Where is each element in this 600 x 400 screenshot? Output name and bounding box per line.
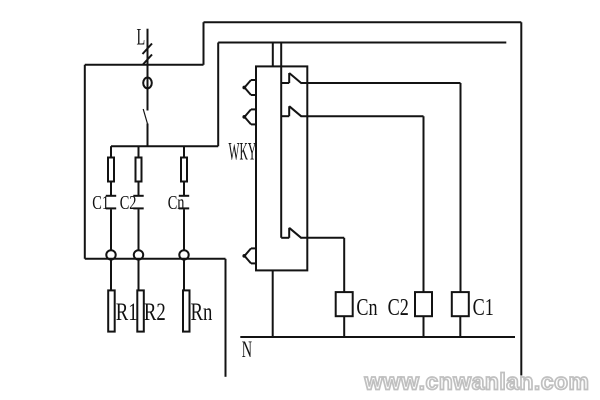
wire capacitor branch bus horizontal [111, 145, 218, 147]
wire top entry left pin [272, 43, 274, 67]
svg-text:L: L [137, 25, 146, 50]
svg-text:Cn: Cn [168, 191, 185, 214]
slash mark 1 on L line [143, 44, 153, 55]
coil Cn [336, 292, 353, 316]
svg-text:C2: C2 [120, 191, 137, 214]
wire horizontal junction at L (node A) [85, 64, 204, 66]
svg-text:C1: C1 [92, 191, 109, 214]
wire contact K2 output to C2 coil [302, 115, 424, 117]
terminal circle branch n [179, 250, 188, 259]
wire branch 1 top [110, 146, 112, 157]
wire branch n mid [183, 182, 185, 196]
wire top entry right pin / internal bus [280, 43, 282, 238]
wire branch 1 mid [110, 182, 112, 196]
wire branch n to resistor [183, 260, 185, 291]
fuse FU2 [136, 158, 142, 182]
wire coil C2 to N [423, 316, 425, 337]
coil C2 [415, 292, 432, 316]
probe sensor 2 (left of WKY) [242, 109, 256, 124]
terminal circle branch 1 [106, 250, 115, 259]
wire second bus horizontal [218, 42, 506, 44]
wire contact Kn output to Cn coil [302, 237, 345, 239]
svg-text:Cn: Cn [356, 294, 377, 321]
resistor Rn [183, 290, 190, 331]
probe sensor 1 (left of WKY) [242, 80, 256, 95]
contact Kn inside WKY [281, 237, 289, 239]
wire branch 1 lower [110, 209, 112, 250]
fuse FU circle on L line [143, 78, 152, 89]
svg-text:N: N [242, 338, 252, 363]
resistor R1 [108, 290, 115, 331]
wire contact K1 output to C1 coil [302, 82, 461, 84]
wire from switch to capacitor bus [147, 124, 149, 147]
capacitor C1 plates [106, 195, 116, 197]
capacitor Cn plates [179, 195, 189, 197]
wire riser to top bus [203, 22, 205, 65]
wire coil Cn to N [343, 316, 345, 337]
svg-text:C2: C2 [388, 294, 409, 321]
svg-text:Rn: Rn [191, 298, 213, 326]
wire left vertical drop [84, 65, 86, 259]
wire branch n lower [183, 209, 185, 250]
wire branch 1 to resistor [110, 260, 112, 291]
contact K1 inside WKY [281, 82, 289, 84]
switch S blade [143, 109, 147, 124]
wire branch 2 lower [138, 209, 140, 250]
terminal circle branch 2 [134, 250, 143, 259]
coil C1 [452, 292, 469, 316]
fuse FUn [181, 158, 187, 182]
svg-text:www.cnwanlan.com: www.cnwanlan.com [364, 369, 590, 395]
wire branch n top [183, 146, 185, 157]
wire lower horizontal bus [85, 258, 226, 260]
wire coil C1 to N [459, 316, 461, 337]
wire L incoming vertical (phase line) [147, 29, 149, 111]
wire right side vertical [520, 22, 522, 375]
controller U1 WKY box [256, 66, 307, 270]
wire neutral bus N [240, 336, 515, 338]
wire branch 2 mid [138, 182, 140, 196]
svg-text:WKY: WKY [229, 139, 257, 166]
wire top bus horizontal [204, 21, 522, 23]
wire WKY bottom pin to N [272, 270, 274, 337]
slash mark 2 on L line [143, 55, 153, 66]
wire lower right vertical tail [225, 259, 227, 377]
svg-text:C1: C1 [473, 294, 494, 321]
fuse FU1 [108, 158, 114, 182]
wire riser from capacitor bus to second bus [217, 43, 219, 147]
svg-text:R2: R2 [144, 298, 166, 326]
resistor R2 [137, 290, 144, 331]
capacitor C2 plates [133, 195, 143, 197]
contact K2 inside WKY [281, 115, 289, 117]
probe sensor n (left of WKY) [242, 248, 256, 263]
wire branch 2 top [138, 146, 140, 157]
svg-text:R1: R1 [116, 298, 138, 326]
wire branch 2 to resistor [138, 260, 140, 291]
